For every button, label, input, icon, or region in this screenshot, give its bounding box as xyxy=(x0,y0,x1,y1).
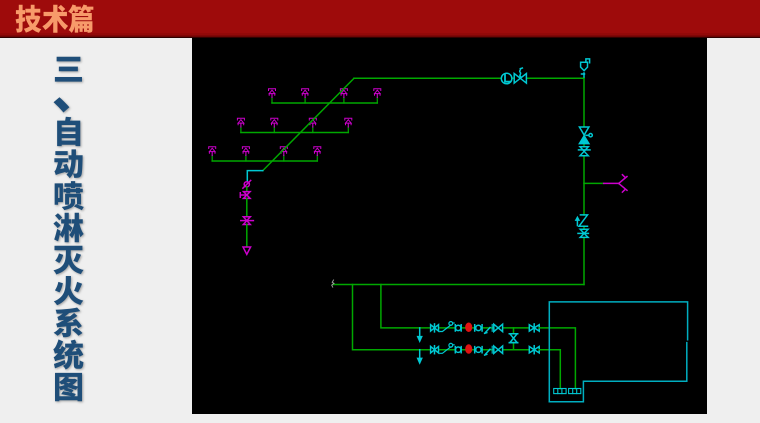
pump room outline part 1 xyxy=(549,302,687,402)
signal butterfly valve BV1 on riser xyxy=(579,127,592,144)
signal valve SV1 xyxy=(514,68,526,83)
sprinkler S11 xyxy=(280,147,287,161)
water flow indicator FI1 xyxy=(501,73,512,84)
drain tee with arrow on line PL1 xyxy=(418,328,422,341)
pipe PL2 discharge into room xyxy=(539,350,560,389)
gauge union PL2a xyxy=(455,347,461,353)
pipe bottom main line xyxy=(333,284,584,286)
sprinkler S6 xyxy=(271,118,278,132)
pipe drop D1 to pump suction line 2 xyxy=(353,285,431,350)
pipe PL1 discharge into room xyxy=(539,328,575,389)
flexible joint PL1 xyxy=(440,322,454,332)
sidebar title char 灭 xyxy=(53,244,84,275)
valve PL2c xyxy=(529,346,539,354)
sidebar title char 、 xyxy=(52,68,99,115)
gauge union PL1a xyxy=(455,325,461,331)
sidebar title char 火 xyxy=(53,275,84,306)
sprinkler S12 xyxy=(314,147,321,161)
sprinkler S8 xyxy=(345,118,352,132)
pipe pump line PL2 xyxy=(431,349,540,351)
butterfly valve PL2a xyxy=(431,346,439,354)
suction header H2 xyxy=(569,389,581,394)
pipe branch line B1 xyxy=(272,102,377,104)
wire drop segment 2 xyxy=(246,198,248,216)
pipe diagonal feed main xyxy=(263,78,354,170)
butterfly valve PL1a xyxy=(431,324,439,332)
pipe cross connect xyxy=(513,328,515,350)
pipe top main line xyxy=(354,77,584,79)
sprinkler S7 xyxy=(309,118,316,132)
sidebar title char 动 xyxy=(53,148,84,179)
wire drop segment xyxy=(246,187,248,192)
sprinkler S3 xyxy=(340,89,347,103)
gauge union PL2b xyxy=(475,347,482,353)
wire drop segment 3 xyxy=(246,225,248,247)
pump room outline part 2 xyxy=(549,343,687,402)
sidebar title char 统 xyxy=(53,339,84,370)
sidebar title char 系 xyxy=(53,307,84,338)
sprinkler S5 xyxy=(237,118,244,132)
pipe break mark xyxy=(332,280,334,287)
fire pump PL1 (red) xyxy=(466,323,472,331)
alarm check valve ACV1 on riser xyxy=(576,215,589,226)
gauge union PL1b xyxy=(475,325,482,331)
red title banner xyxy=(0,0,760,38)
check valve PL2 xyxy=(485,349,490,355)
test hose outlet TO1 xyxy=(604,175,627,192)
sprinkler S10 xyxy=(242,147,249,161)
pipe drop D2 to pump suction line 1 xyxy=(381,285,431,328)
check valve PL1 xyxy=(485,328,490,334)
pressure gauge G1 on drop xyxy=(243,180,251,188)
cross connect valve XV1 xyxy=(509,334,517,343)
flexible joint PL2 xyxy=(440,343,454,353)
valve PL2b xyxy=(492,346,502,353)
drain tee with arrow on line PL2 xyxy=(418,350,422,363)
pipe branch line B3 xyxy=(212,160,317,162)
pipe pump line PL1 xyxy=(431,327,540,329)
sidebar vertical title xyxy=(0,0,760,1)
valve V3 on riser xyxy=(579,147,591,156)
drain outlet triangle xyxy=(243,247,251,254)
sprinkler S2 xyxy=(302,89,309,103)
sprinkler S9 xyxy=(209,147,216,161)
pipe branch line B2 xyxy=(241,132,348,134)
sidebar title char 图 xyxy=(53,371,84,402)
valve PL1b xyxy=(492,324,502,331)
black drawing canvas xyxy=(192,38,707,414)
valve V4 on riser xyxy=(578,229,588,237)
sprinkler S1 xyxy=(269,89,276,103)
sprinkler S4 xyxy=(374,89,381,103)
pipe test outlet stub xyxy=(584,182,604,184)
valve V1 on drop xyxy=(240,192,250,199)
sidebar title char 喷 xyxy=(53,180,84,211)
fire pump PL2 (red) xyxy=(466,345,472,353)
header title char 篇 xyxy=(68,4,95,34)
valve PL1c xyxy=(529,324,539,332)
sidebar title char 淋 xyxy=(53,212,84,243)
pipe cyan elbow at end of feed main xyxy=(247,171,262,181)
suction header H1 xyxy=(554,389,566,394)
automatic air vent AV1 xyxy=(581,59,590,77)
header title char 术 xyxy=(42,4,69,34)
sidebar title char 自 xyxy=(53,116,84,147)
valve V2 on drop xyxy=(241,217,254,225)
sidebar title char 三 xyxy=(53,53,84,84)
pipe riser xyxy=(583,78,585,284)
header title char 技 xyxy=(15,4,42,34)
